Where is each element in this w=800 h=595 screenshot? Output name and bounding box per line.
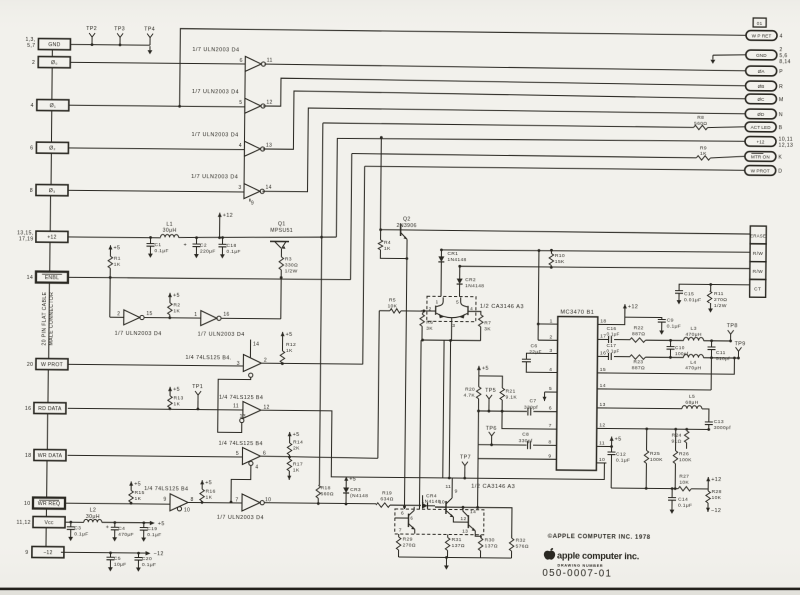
svg-text:1K: 1K (700, 151, 707, 157)
svg-text:2K: 2K (293, 445, 300, 451)
svg-text:1K: 1K (286, 348, 293, 354)
svg-text:MTR ON: MTR ON (751, 154, 770, 159)
svg-text:+5: +5 (349, 477, 356, 483)
svg-text:CT: CT (754, 287, 761, 293)
svg-text:ØA: ØA (758, 69, 766, 74)
svg-text:220μF: 220μF (200, 249, 216, 255)
svg-text:3K: 3K (484, 326, 491, 332)
svg-text:9.1K: 9.1K (506, 395, 518, 401)
svg-text:D: D (778, 169, 782, 175)
svg-text:510pf: 510pf (716, 356, 730, 362)
svg-text:10: 10 (24, 501, 31, 507)
svg-text:100pf: 100pf (675, 351, 689, 356)
svg-text:C13: C13 (714, 419, 724, 425)
svg-text:N: N (779, 112, 783, 118)
svg-text:C16: C16 (607, 326, 617, 331)
svg-text:R: R (779, 84, 783, 90)
svg-text:8,14: 8,14 (779, 59, 791, 65)
svg-text:R18: R18 (321, 485, 331, 491)
svg-text:330pf: 330pf (524, 405, 538, 411)
svg-text:9: 9 (455, 489, 458, 495)
svg-text:1K: 1K (173, 308, 180, 314)
svg-text:MC3470 B1: MC3470 B1 (560, 309, 594, 315)
svg-text:1K: 1K (206, 495, 213, 501)
svg-text:2N3906: 2N3906 (397, 223, 417, 229)
svg-text:0.1μF: 0.1μF (606, 349, 619, 354)
svg-text:14: 14 (253, 342, 259, 348)
svg-text:C2: C2 (200, 243, 207, 249)
svg-text:R/W: R/W (753, 269, 764, 275)
svg-text:20: 20 (27, 362, 34, 368)
svg-text:+: + (106, 525, 110, 531)
svg-text:C18: C18 (226, 243, 236, 249)
svg-text:10: 10 (184, 507, 190, 513)
svg-text:1/7 ULN2003 D4: 1/7 ULN2003 D4 (192, 89, 239, 95)
svg-text:3: 3 (452, 323, 455, 329)
svg-text:Ø₁: Ø₁ (50, 103, 56, 109)
svg-text:330pf: 330pf (519, 438, 533, 444)
svg-text:C3: C3 (74, 525, 81, 531)
svg-text:4: 4 (779, 34, 782, 40)
svg-text:TP4: TP4 (144, 27, 155, 33)
svg-text:L4: L4 (690, 360, 696, 366)
svg-text:10K: 10K (387, 303, 397, 309)
svg-text:R28: R28 (712, 489, 722, 495)
svg-text:560Ω: 560Ω (321, 491, 334, 497)
svg-text:CR2: CR2 (465, 277, 476, 283)
svg-text:TP7: TP7 (460, 455, 471, 461)
svg-text:68μH: 68μH (685, 400, 698, 406)
svg-text:20 PIN FLAT CABLE: 20 PIN FLAT CABLE (42, 291, 49, 345)
svg-text:5: 5 (549, 386, 552, 392)
svg-text:C11: C11 (716, 350, 726, 356)
svg-text:R22: R22 (634, 325, 644, 331)
svg-text:17: 17 (600, 334, 606, 340)
svg-text:16: 16 (600, 351, 606, 357)
svg-text:1K: 1K (384, 246, 391, 252)
svg-text:18: 18 (25, 453, 32, 459)
svg-text:Ø₀: Ø₀ (51, 60, 58, 66)
svg-text:R23: R23 (633, 359, 643, 365)
svg-text:2: 2 (32, 60, 35, 66)
svg-text:1/2W: 1/2W (714, 303, 727, 309)
svg-text:R17: R17 (293, 461, 303, 467)
svg-text:12,13: 12,13 (778, 143, 793, 149)
svg-text:C9: C9 (667, 318, 674, 324)
svg-text:ERASE: ERASE (750, 233, 766, 238)
svg-text:1/4 74LS125 B4.: 1/4 74LS125 B4. (185, 355, 231, 361)
svg-text:30μH: 30μH (86, 514, 100, 520)
svg-text:C12: C12 (616, 452, 626, 458)
svg-text:C10: C10 (675, 345, 685, 350)
svg-text:TP3: TP3 (114, 26, 125, 32)
svg-text:ENBL: ENBL (45, 275, 59, 281)
svg-text:M: M (779, 97, 784, 103)
svg-text:3: 3 (549, 348, 552, 354)
svg-text:R9: R9 (700, 145, 707, 151)
svg-text:+12: +12 (756, 139, 764, 144)
svg-text:GND: GND (48, 42, 60, 48)
svg-text:270Ω: 270Ω (403, 543, 416, 549)
svg-text:Ø₂: Ø₂ (49, 146, 56, 152)
svg-text:L1: L1 (166, 222, 173, 228)
svg-text:1/4 74LS125 B4: 1/4 74LS125 B4 (144, 486, 188, 492)
svg-text:0.1μF: 0.1μF (147, 532, 161, 538)
svg-text:9: 9 (251, 201, 254, 207)
svg-text:15: 15 (146, 311, 152, 317)
svg-text:C19: C19 (147, 526, 157, 532)
svg-text:576Ω: 576Ω (516, 544, 529, 550)
svg-text:10K: 10K (679, 480, 689, 486)
svg-text:TP8: TP8 (727, 323, 738, 329)
svg-text:TP9: TP9 (735, 341, 746, 347)
svg-text:2: 2 (429, 306, 432, 311)
svg-text:C7: C7 (529, 398, 536, 404)
svg-text:0.1μF: 0.1μF (678, 503, 692, 509)
svg-text:2: 2 (550, 334, 553, 340)
svg-text:W PROT: W PROT (41, 362, 64, 368)
svg-text:3: 3 (237, 361, 240, 367)
svg-text:ØB: ØB (758, 84, 765, 89)
svg-text:14: 14 (27, 275, 34, 281)
svg-text:3: 3 (238, 185, 241, 191)
svg-text:10: 10 (439, 499, 445, 505)
svg-text:8: 8 (549, 439, 552, 445)
svg-text:+: + (183, 242, 187, 248)
svg-text:CR1: CR1 (447, 251, 458, 257)
svg-text:+12: +12 (223, 213, 233, 219)
svg-text:1/4 74LS125 B4: 1/4 74LS125 B4 (219, 395, 263, 401)
svg-text:+5: +5 (615, 437, 622, 443)
svg-text:13: 13 (599, 402, 605, 408)
svg-text:R12: R12 (286, 342, 296, 348)
svg-text:−12: −12 (43, 550, 52, 556)
svg-text:16: 16 (223, 312, 229, 318)
svg-text:10: 10 (599, 457, 605, 463)
svg-text:R24: R24 (672, 433, 682, 439)
svg-text:17,19: 17,19 (19, 237, 34, 243)
svg-text:1: 1 (436, 299, 439, 304)
svg-text:WR DATA: WR DATA (38, 453, 63, 459)
svg-text:11: 11 (599, 441, 605, 447)
svg-text:R11: R11 (714, 291, 724, 297)
svg-text:12: 12 (599, 423, 605, 429)
svg-text:CR4: CR4 (426, 493, 437, 499)
svg-text:5: 5 (456, 299, 459, 304)
svg-text:1/7 ULN2003 D4: 1/7 ULN2003 D4 (191, 174, 238, 180)
svg-text:+5: +5 (113, 245, 120, 251)
svg-text:6: 6 (240, 58, 243, 64)
svg-text:C17: C17 (607, 343, 617, 348)
svg-text:K: K (778, 155, 782, 161)
svg-text:Q1: Q1 (278, 221, 286, 227)
svg-text:.22μF: .22μF (527, 349, 541, 355)
svg-text:13: 13 (240, 414, 246, 420)
svg-text:R4: R4 (384, 240, 391, 246)
svg-text:887Ω: 887Ω (632, 365, 645, 371)
svg-text:CR3: CR3 (350, 487, 361, 493)
svg-text:R1: R1 (114, 256, 121, 262)
svg-text:14: 14 (266, 185, 272, 191)
svg-text:7: 7 (549, 423, 552, 429)
svg-text:137Ω: 137Ω (452, 543, 465, 549)
svg-text:14: 14 (470, 509, 476, 515)
svg-text:8: 8 (30, 188, 33, 194)
svg-text:C4: C4 (118, 526, 125, 532)
svg-text:12: 12 (266, 100, 272, 106)
svg-text:4: 4 (255, 465, 258, 471)
svg-text:−12: −12 (711, 508, 721, 514)
svg-text:R31: R31 (452, 537, 462, 543)
svg-text:1N4148: 1N4148 (465, 283, 484, 289)
svg-text:+5: +5 (158, 521, 165, 527)
svg-text:0.1μF: 0.1μF (142, 562, 156, 568)
svg-text:16: 16 (25, 406, 32, 412)
svg-text:C6: C6 (531, 343, 538, 349)
svg-text:+5: +5 (134, 481, 141, 487)
svg-text:+5: +5 (293, 432, 300, 438)
svg-text:RD DATA: RD DATA (38, 406, 62, 412)
svg-text:+12: +12 (711, 477, 721, 483)
svg-text:R3: R3 (285, 256, 292, 262)
svg-text:887Ω: 887Ω (632, 331, 645, 337)
svg-text:R26: R26 (679, 451, 689, 457)
svg-text:11,12: 11,12 (16, 520, 30, 526)
svg-text:Ø₃: Ø₃ (49, 188, 56, 194)
svg-text:470μH: 470μH (685, 332, 701, 338)
svg-text:ACT LED: ACT LED (751, 125, 772, 130)
svg-text:5,7: 5,7 (27, 43, 35, 49)
svg-text:1/2 CA3146 A3: 1/2 CA3146 A3 (480, 304, 524, 310)
svg-text:4: 4 (549, 367, 552, 373)
svg-text:MALE CONNECTOR: MALE CONNECTOR (49, 292, 56, 346)
svg-text:1/4 74LS125 B4: 1/4 74LS125 B4 (219, 441, 263, 447)
svg-text:6: 6 (410, 516, 413, 521)
svg-text:+5: +5 (173, 387, 180, 393)
svg-text:1/7 ULN2003 D4: 1/7 ULN2003 D4 (217, 515, 264, 521)
svg-text:TP1: TP1 (192, 384, 203, 390)
svg-text:apple computer inc.: apple computer inc. (557, 551, 639, 562)
svg-text:TP6: TP6 (486, 426, 497, 432)
svg-text:−12: −12 (153, 551, 163, 557)
svg-text:4: 4 (470, 306, 473, 311)
svg-text:R10: R10 (555, 253, 565, 259)
svg-text:1/7 ULN2003 D4: 1/7 ULN2003 D4 (192, 132, 239, 138)
svg-text:9: 9 (25, 550, 28, 556)
svg-text:R8: R8 (697, 115, 704, 121)
svg-text:C5: C5 (114, 556, 121, 562)
svg-text:R16: R16 (206, 489, 216, 495)
svg-text:15K: 15K (555, 259, 565, 265)
svg-text:L2: L2 (90, 508, 97, 514)
svg-text:100K: 100K (650, 457, 663, 463)
svg-text:R32: R32 (516, 538, 526, 544)
svg-text:R13: R13 (173, 395, 183, 401)
svg-text:1N4148: 1N4148 (447, 257, 466, 263)
svg-text:TP5: TP5 (485, 388, 496, 394)
svg-text:R14: R14 (293, 439, 303, 445)
svg-text:10K: 10K (712, 495, 722, 501)
svg-text:C8: C8 (522, 432, 529, 438)
svg-text:+5: +5 (482, 366, 489, 372)
svg-text:14: 14 (600, 383, 606, 389)
svg-text:5: 5 (239, 100, 242, 106)
svg-text:4: 4 (31, 103, 34, 109)
svg-text:13: 13 (462, 529, 468, 535)
svg-text:+12: +12 (628, 304, 638, 310)
svg-text:R7: R7 (484, 320, 491, 326)
svg-text:WR REQ: WR REQ (38, 501, 61, 507)
svg-text:1K: 1K (135, 496, 142, 502)
svg-text:5: 5 (236, 451, 239, 457)
svg-text:GND: GND (756, 53, 767, 58)
svg-text:3000pf: 3000pf (714, 425, 731, 431)
svg-text:TP2: TP2 (86, 26, 97, 32)
svg-text:3K: 3K (426, 326, 433, 332)
svg-text:C14: C14 (678, 497, 688, 503)
svg-text:R6: R6 (426, 320, 433, 326)
svg-text:1: 1 (194, 312, 197, 318)
svg-text:R27: R27 (679, 474, 689, 480)
svg-text:0.1μF: 0.1μF (667, 324, 681, 330)
svg-text:6: 6 (549, 406, 552, 412)
svg-text:137Ω: 137Ω (485, 543, 498, 549)
svg-text:560Ω: 560Ω (694, 121, 707, 127)
svg-text:L5: L5 (689, 394, 695, 400)
svg-text:91Ω: 91Ω (671, 439, 681, 445)
svg-text:01: 01 (757, 21, 763, 26)
svg-text:12: 12 (460, 516, 466, 522)
svg-text:R25: R25 (650, 451, 660, 457)
svg-text:6: 6 (401, 511, 404, 517)
svg-text:R19: R19 (382, 490, 392, 496)
svg-text:0.1μF: 0.1μF (154, 248, 168, 254)
svg-text:7: 7 (235, 497, 238, 503)
svg-text:1/7 ULN2003 D4: 1/7 ULN2003 D4 (115, 331, 162, 337)
svg-text:9: 9 (163, 497, 166, 503)
svg-text:11: 11 (445, 484, 451, 490)
svg-text:634Ω: 634Ω (380, 496, 393, 502)
svg-text:4.7K: 4.7K (464, 393, 476, 399)
svg-text:+12: +12 (47, 235, 56, 241)
svg-text:L3: L3 (691, 326, 697, 332)
svg-text:W P RET: W P RET (752, 33, 772, 38)
svg-text:15: 15 (600, 367, 606, 373)
svg-text:R29: R29 (403, 537, 413, 543)
svg-text:1/2W: 1/2W (285, 268, 298, 274)
svg-text:©APPLE COMPUTER INC. 1978: ©APPLE COMPUTER INC. 1978 (548, 533, 651, 541)
svg-text:11: 11 (267, 58, 273, 64)
svg-text:1/7 ULN2003 D4: 1/7 ULN2003 D4 (192, 47, 239, 53)
svg-text:4: 4 (239, 143, 242, 149)
svg-text:050-0007-01: 050-0007-01 (542, 568, 612, 580)
svg-text:13: 13 (266, 143, 272, 149)
svg-text:1K: 1K (114, 262, 121, 268)
svg-text:R/W: R/W (753, 251, 764, 257)
svg-text:1: 1 (550, 318, 553, 324)
svg-text:C20: C20 (142, 556, 152, 562)
svg-text:11: 11 (233, 403, 239, 409)
svg-text:0.1μF: 0.1μF (226, 249, 240, 255)
svg-text:470μF: 470μF (118, 532, 134, 538)
svg-text:1K: 1K (173, 401, 180, 407)
svg-text:ØD: ØD (757, 112, 765, 117)
svg-text:0.1μF: 0.1μF (616, 458, 630, 464)
svg-text:+5: +5 (205, 480, 212, 486)
svg-text:R20: R20 (465, 387, 475, 393)
svg-text:0.1μF: 0.1μF (607, 331, 620, 336)
svg-text:ØC: ØC (757, 97, 765, 102)
svg-text:9: 9 (548, 453, 551, 459)
svg-text:Vcc: Vcc (44, 520, 54, 526)
svg-text:1/7 ULN2003 D4: 1/7 ULN2003 D4 (198, 332, 245, 338)
svg-text:30μH: 30μH (163, 228, 177, 234)
svg-text:(N4148: (N4148 (350, 493, 368, 499)
svg-text:330Ω: 330Ω (285, 262, 298, 268)
svg-text:R21: R21 (506, 389, 516, 395)
svg-text:7: 7 (399, 527, 402, 533)
svg-text:R5: R5 (389, 297, 396, 303)
svg-text:C1: C1 (154, 242, 161, 248)
svg-text:6: 6 (30, 146, 33, 152)
svg-text:C15: C15 (684, 291, 694, 297)
svg-text:2: 2 (117, 311, 120, 317)
svg-text:270Ω: 270Ω (714, 297, 727, 303)
svg-text:+5: +5 (173, 293, 180, 299)
svg-text:P: P (779, 69, 783, 75)
svg-text:470μH: 470μH (685, 365, 701, 371)
svg-text:Q2: Q2 (403, 217, 411, 223)
svg-text:0.1μF: 0.1μF (74, 531, 88, 537)
svg-text:R30: R30 (485, 537, 495, 543)
svg-text:MPSU51: MPSU51 (270, 228, 293, 234)
svg-text:10μF: 10μF (114, 562, 127, 568)
svg-text:18: 18 (600, 319, 606, 325)
svg-text:B: B (779, 125, 783, 131)
svg-text:1K: 1K (293, 467, 300, 473)
svg-text:W PROT: W PROT (751, 168, 770, 173)
svg-text:+5: +5 (286, 332, 293, 338)
svg-text:0.01μF: 0.01μF (684, 297, 701, 303)
svg-text:R2: R2 (173, 302, 180, 308)
svg-text:100K: 100K (679, 457, 692, 463)
